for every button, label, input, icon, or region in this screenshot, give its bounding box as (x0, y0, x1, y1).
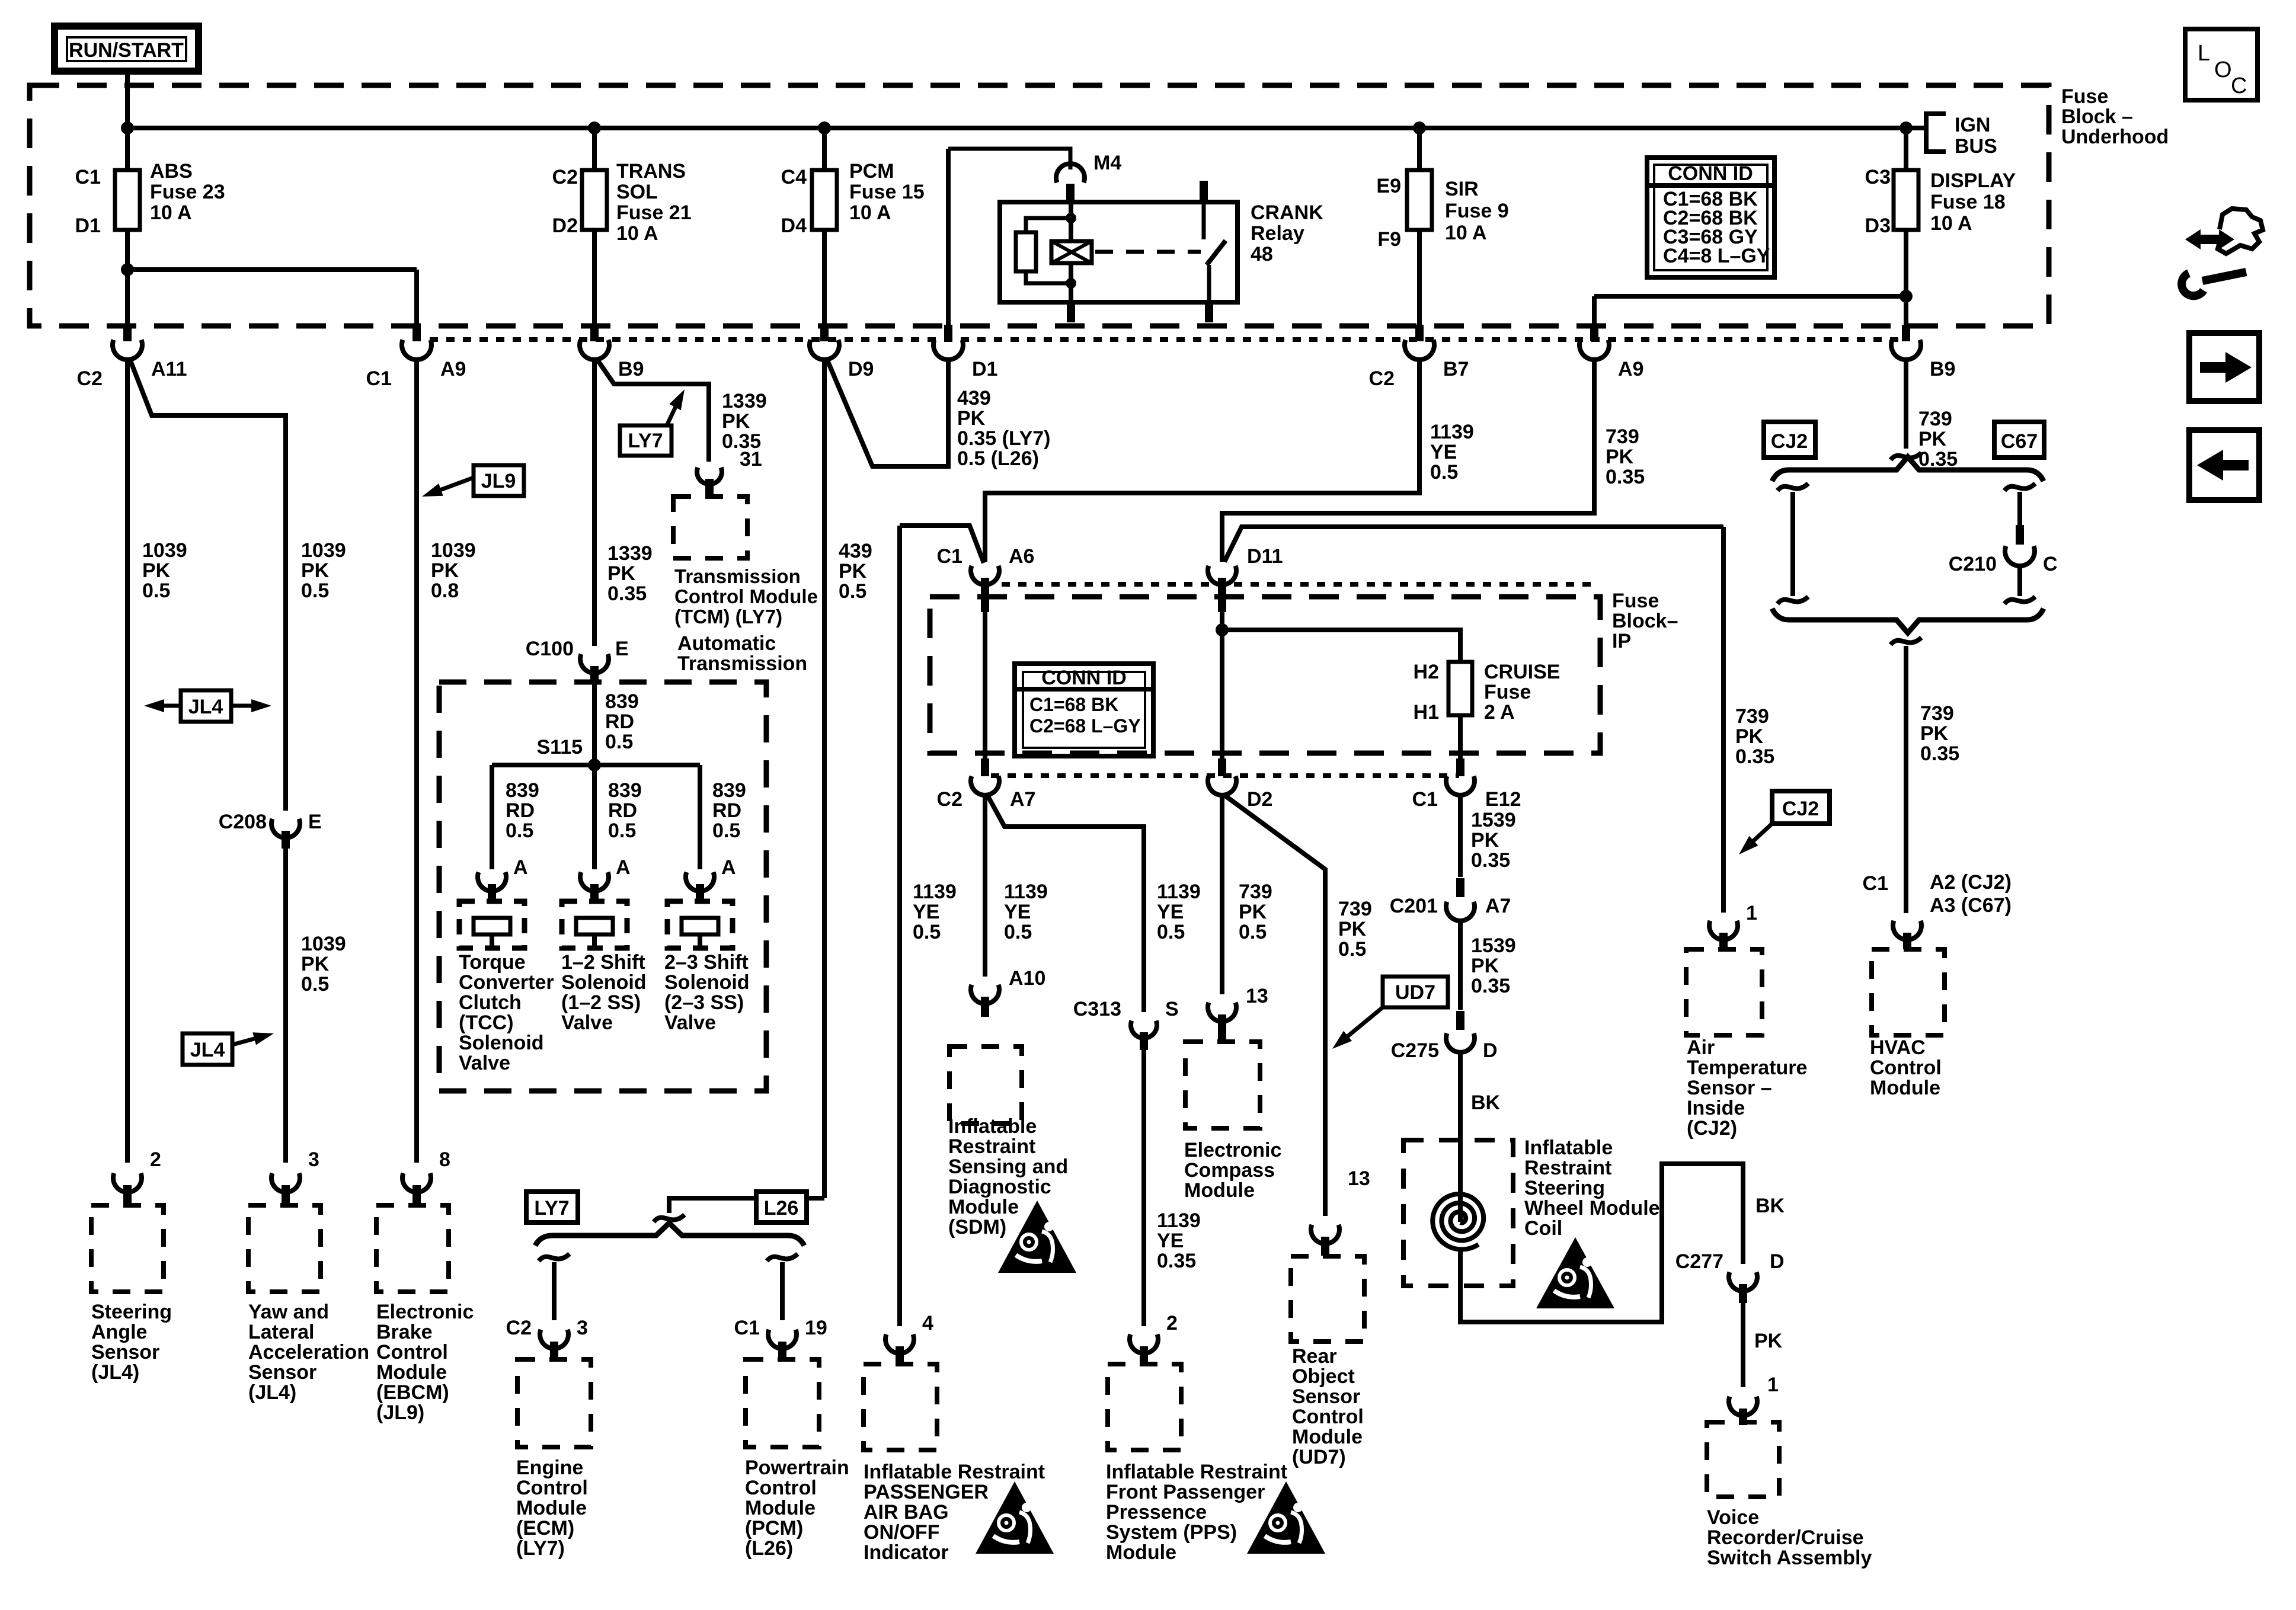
svg-text:739: 739 (1918, 408, 1952, 430)
svg-text:Sensor –: Sensor – (1687, 1077, 1772, 1099)
svg-text:10 A: 10 A (849, 201, 891, 224)
svg-text:4: 4 (922, 1312, 933, 1334)
svg-text:D4: D4 (781, 215, 807, 237)
svg-text:Module: Module (745, 1497, 816, 1519)
svg-text:(UD7): (UD7) (1292, 1446, 1346, 1468)
svg-text:0.5: 0.5 (608, 820, 636, 842)
svg-text:0.8: 0.8 (431, 580, 459, 602)
svg-text:YE: YE (1430, 441, 1457, 463)
svg-text:A9: A9 (1618, 358, 1643, 380)
svg-text:BUS: BUS (1955, 135, 1997, 158)
svg-text:19: 19 (805, 1317, 827, 1339)
svg-text:Transmission: Transmission (677, 652, 807, 675)
svg-text:A7: A7 (1485, 895, 1511, 917)
svg-text:(ECM): (ECM) (516, 1517, 574, 1539)
svg-text:Temperature: Temperature (1687, 1057, 1807, 1079)
svg-text:C208: C208 (219, 811, 267, 833)
svg-text:PK: PK (431, 559, 459, 582)
svg-text:PK: PK (1920, 722, 1949, 745)
svg-text:E12: E12 (1485, 788, 1521, 811)
svg-text:739: 739 (1735, 705, 1769, 728)
svg-text:PK: PK (1338, 918, 1367, 940)
svg-text:0.5: 0.5 (301, 973, 329, 996)
svg-text:Control: Control (516, 1477, 588, 1499)
svg-text:A10: A10 (1009, 967, 1045, 990)
svg-text:F9: F9 (1377, 228, 1401, 251)
svg-text:DISPLAY: DISPLAY (1930, 169, 2016, 192)
svg-text:2 A: 2 A (1484, 701, 1515, 724)
svg-text:System (PPS): System (PPS) (1106, 1521, 1237, 1544)
svg-text:B9: B9 (1930, 358, 1955, 380)
svg-text:JL4: JL4 (188, 696, 223, 718)
svg-text:S: S (1165, 998, 1179, 1020)
svg-text:AIR BAG: AIR BAG (864, 1501, 949, 1523)
svg-text:Pressence: Pressence (1106, 1501, 1207, 1523)
svg-text:Control: Control (1292, 1406, 1364, 1428)
svg-text:Acceleration: Acceleration (248, 1341, 369, 1363)
svg-text:Inflatable Restraint: Inflatable Restraint (864, 1461, 1045, 1483)
svg-text:Clutch: Clutch (459, 991, 522, 1014)
svg-text:Sensor: Sensor (248, 1361, 316, 1384)
svg-text:ON/OFF: ON/OFF (864, 1521, 939, 1544)
svg-text:E: E (615, 638, 629, 660)
svg-text:Automatic: Automatic (677, 632, 776, 655)
svg-text:C1: C1 (366, 367, 392, 390)
svg-text:Module: Module (1184, 1179, 1255, 1202)
svg-text:1039: 1039 (142, 539, 187, 562)
svg-text:Steering: Steering (91, 1301, 172, 1323)
svg-text:PK: PK (1754, 1330, 1783, 1352)
svg-text:IP: IP (1612, 630, 1631, 652)
svg-text:Transmission: Transmission (674, 565, 801, 587)
svg-text:Solenoid: Solenoid (561, 971, 647, 994)
svg-text:48: 48 (1251, 243, 1273, 265)
svg-text:C1=68 BK: C1=68 BK (1029, 694, 1118, 715)
svg-text:C2=68 L–GY: C2=68 L–GY (1029, 715, 1141, 737)
svg-text:PK: PK (301, 953, 330, 975)
svg-text:D2: D2 (552, 215, 578, 237)
svg-text:A11: A11 (151, 358, 187, 380)
svg-text:E: E (308, 811, 322, 833)
svg-text:YE: YE (1004, 901, 1031, 923)
svg-text:D9: D9 (848, 358, 874, 380)
svg-text:Front Passenger: Front Passenger (1106, 1481, 1265, 1503)
svg-text:PCM: PCM (849, 160, 894, 183)
svg-text:HVAC: HVAC (1870, 1036, 1926, 1059)
svg-text:Module: Module (516, 1497, 587, 1519)
svg-text:Fuse 23: Fuse 23 (150, 181, 225, 203)
svg-text:L26: L26 (764, 1197, 799, 1219)
svg-text:Recorder/Cruise: Recorder/Cruise (1707, 1526, 1864, 1549)
svg-text:IGN: IGN (1955, 114, 1990, 136)
svg-text:YE: YE (1157, 1230, 1184, 1252)
svg-text:C2: C2 (1369, 367, 1395, 390)
svg-text:839: 839 (608, 779, 642, 802)
svg-text:0.5: 0.5 (301, 580, 329, 602)
svg-text:1539: 1539 (1471, 934, 1516, 957)
svg-text:0.5 (L26): 0.5 (L26) (957, 447, 1039, 470)
svg-text:Yaw and: Yaw and (248, 1301, 329, 1323)
svg-text:Wheel Module: Wheel Module (1524, 1197, 1660, 1219)
svg-text:Control: Control (1870, 1057, 1942, 1079)
svg-text:Restraint: Restraint (1524, 1157, 1611, 1179)
svg-text:2: 2 (1166, 1312, 1178, 1334)
svg-text:Valve: Valve (561, 1012, 613, 1034)
svg-text:10 A: 10 A (1445, 222, 1487, 244)
svg-text:Inside: Inside (1687, 1097, 1745, 1119)
svg-text:1: 1 (1746, 902, 1757, 924)
svg-text:0.35: 0.35 (1471, 975, 1510, 997)
svg-text:Block–: Block– (1612, 610, 1678, 632)
svg-text:PK: PK (1918, 428, 1947, 450)
svg-text:Relay: Relay (1251, 222, 1304, 245)
svg-text:Fuse 18: Fuse 18 (1930, 191, 2006, 213)
svg-text:Sensor: Sensor (1292, 1385, 1360, 1408)
svg-text:(TCC): (TCC) (459, 1012, 514, 1034)
svg-text:Control Module: Control Module (674, 585, 818, 607)
svg-text:Electronic: Electronic (1184, 1139, 1281, 1161)
svg-text:O: O (2214, 57, 2232, 82)
svg-text:1039: 1039 (431, 539, 476, 562)
svg-text:(JL4): (JL4) (248, 1381, 296, 1404)
svg-text:0.5: 0.5 (1338, 938, 1366, 961)
svg-text:RD: RD (712, 799, 741, 822)
svg-text:3: 3 (308, 1148, 319, 1171)
svg-text:739: 739 (1606, 425, 1639, 448)
svg-text:Diagnostic: Diagnostic (948, 1176, 1051, 1198)
svg-text:(JL4): (JL4) (91, 1361, 139, 1384)
svg-text:(1–2 SS): (1–2 SS) (561, 991, 641, 1014)
svg-text:(JL9): (JL9) (376, 1401, 424, 1424)
svg-text:0.5: 0.5 (712, 820, 740, 842)
svg-text:C4=8 L–GY: C4=8 L–GY (1663, 245, 1770, 267)
svg-text:Fuse 21: Fuse 21 (616, 201, 692, 224)
svg-text:(CJ2): (CJ2) (1687, 1117, 1737, 1140)
svg-text:Object: Object (1292, 1365, 1355, 1388)
svg-text:E9: E9 (1376, 175, 1401, 197)
svg-text:0.5: 0.5 (142, 580, 170, 602)
svg-text:C277: C277 (1675, 1250, 1723, 1273)
svg-text:Lateral: Lateral (248, 1321, 315, 1343)
svg-text:D2: D2 (1247, 788, 1272, 811)
svg-text:0.35 (LY7): 0.35 (LY7) (957, 427, 1051, 450)
svg-text:C201: C201 (1390, 895, 1438, 917)
svg-text:1–2 Shift: 1–2 Shift (561, 951, 645, 974)
svg-text:A: A (513, 856, 528, 879)
svg-text:Steering: Steering (1524, 1177, 1605, 1199)
svg-text:C3: C3 (1865, 166, 1891, 188)
svg-text:A6: A6 (1009, 545, 1034, 568)
svg-text:0.5: 0.5 (1430, 461, 1458, 484)
svg-text:Restraint: Restraint (948, 1135, 1035, 1158)
svg-text:0.35: 0.35 (1920, 742, 1959, 765)
svg-text:839: 839 (605, 690, 639, 713)
svg-text:(SDM): (SDM) (948, 1216, 1006, 1238)
svg-text:Indicator: Indicator (864, 1541, 949, 1564)
svg-text:Fuse 9: Fuse 9 (1445, 200, 1509, 222)
svg-text:RUN/START: RUN/START (69, 39, 184, 62)
svg-text:Inflatable Restraint: Inflatable Restraint (1106, 1461, 1287, 1483)
svg-text:Control: Control (376, 1341, 448, 1363)
svg-text:CJ2: CJ2 (1771, 430, 1808, 453)
svg-text:Solenoid: Solenoid (459, 1032, 544, 1054)
svg-text:CRUISE: CRUISE (1484, 661, 1560, 683)
svg-text:1139: 1139 (1157, 881, 1201, 903)
svg-text:D3: D3 (1865, 215, 1891, 237)
svg-text:0.5: 0.5 (605, 731, 633, 753)
svg-text:C2: C2 (506, 1317, 532, 1339)
svg-text:Control: Control (745, 1477, 817, 1499)
svg-text:(TCM) (LY7): (TCM) (LY7) (674, 606, 782, 628)
svg-text:C2: C2 (937, 788, 962, 811)
svg-text:0.5: 0.5 (839, 580, 866, 603)
svg-text:Inflatable: Inflatable (948, 1115, 1037, 1138)
svg-text:1539: 1539 (1471, 809, 1516, 831)
svg-text:Air: Air (1687, 1036, 1715, 1059)
svg-text:1339: 1339 (607, 542, 653, 565)
svg-text:Block –: Block – (2061, 105, 2133, 128)
svg-text:H1: H1 (1414, 701, 1439, 724)
svg-text:Module: Module (1106, 1541, 1176, 1564)
svg-text:PK: PK (142, 559, 171, 582)
svg-text:Torque: Torque (459, 951, 526, 974)
svg-text:0.5: 0.5 (913, 921, 941, 943)
svg-text:2–3 Shift: 2–3 Shift (664, 951, 749, 974)
svg-text:M4: M4 (1093, 152, 1121, 174)
svg-text:C1: C1 (734, 1317, 760, 1339)
svg-text:UD7: UD7 (1395, 981, 1435, 1004)
svg-text:C313: C313 (1073, 998, 1121, 1020)
svg-text:10 A: 10 A (150, 201, 192, 224)
svg-text:PK: PK (957, 407, 986, 430)
svg-text:439: 439 (839, 540, 872, 562)
svg-text:Angle: Angle (91, 1321, 147, 1343)
svg-text:C210: C210 (1949, 553, 1997, 575)
svg-text:(2–3 SS): (2–3 SS) (664, 991, 744, 1014)
svg-text:D: D (1483, 1039, 1498, 1062)
svg-text:C4: C4 (781, 166, 807, 188)
svg-text:A3 (C67): A3 (C67) (1930, 894, 2012, 917)
svg-text:LY7: LY7 (534, 1197, 569, 1219)
svg-text:TRANS: TRANS (616, 160, 686, 183)
svg-text:Valve: Valve (664, 1012, 716, 1034)
svg-text:Fuse: Fuse (2061, 85, 2108, 108)
svg-text:1139: 1139 (1157, 1209, 1201, 1232)
svg-text:CONN ID: CONN ID (1041, 667, 1127, 689)
svg-text:CJ2: CJ2 (1782, 798, 1819, 820)
svg-text:PK: PK (607, 562, 636, 585)
svg-text:LY7: LY7 (628, 430, 663, 452)
svg-text:Fuse: Fuse (1612, 590, 1659, 612)
svg-text:C1: C1 (1412, 788, 1438, 811)
svg-text:Sensing and: Sensing and (948, 1156, 1068, 1178)
svg-text:D11: D11 (1247, 545, 1283, 568)
svg-text:(L26): (L26) (745, 1537, 793, 1560)
svg-text:0.35: 0.35 (1157, 1250, 1196, 1272)
svg-text:Underhood: Underhood (2061, 126, 2169, 148)
svg-text:1139: 1139 (913, 881, 957, 903)
svg-text:Module: Module (1292, 1426, 1363, 1448)
svg-text:839: 839 (506, 779, 539, 802)
svg-text:3: 3 (577, 1317, 588, 1339)
svg-text:1039: 1039 (301, 539, 346, 562)
svg-text:C: C (2043, 553, 2058, 575)
svg-text:YE: YE (1157, 901, 1184, 923)
svg-text:PK: PK (839, 560, 867, 582)
svg-text:Coil: Coil (1524, 1217, 1562, 1240)
svg-text:0.35: 0.35 (1735, 745, 1774, 768)
svg-text:13: 13 (1246, 985, 1268, 1007)
svg-text:Module: Module (948, 1196, 1019, 1218)
svg-text:B9: B9 (618, 358, 644, 380)
svg-text:PK: PK (1606, 446, 1634, 468)
svg-text:439: 439 (957, 387, 991, 409)
svg-text:739: 739 (1920, 702, 1954, 725)
svg-text:739: 739 (1338, 898, 1372, 920)
svg-text:C: C (2231, 73, 2247, 98)
svg-text:C1: C1 (75, 166, 101, 188)
svg-text:SOL: SOL (616, 181, 658, 203)
svg-text:Electronic: Electronic (376, 1301, 474, 1323)
svg-text:Valve: Valve (459, 1052, 510, 1074)
svg-text:Solenoid: Solenoid (664, 971, 750, 994)
svg-text:839: 839 (712, 779, 746, 802)
svg-text:PK: PK (301, 559, 330, 582)
svg-text:C2: C2 (77, 367, 103, 390)
svg-text:CRANK: CRANK (1251, 201, 1323, 224)
svg-text:8: 8 (439, 1148, 450, 1171)
svg-text:C1: C1 (937, 545, 962, 568)
svg-text:31: 31 (740, 448, 762, 470)
svg-text:Sensor: Sensor (91, 1341, 159, 1363)
svg-text:Rear: Rear (1292, 1345, 1337, 1368)
svg-text:A: A (721, 856, 736, 879)
svg-text:BK: BK (1471, 1092, 1501, 1114)
svg-text:(PCM): (PCM) (745, 1517, 803, 1539)
svg-text:A7: A7 (1010, 788, 1035, 811)
svg-text:Fuse 15: Fuse 15 (849, 181, 925, 203)
svg-text:Voice: Voice (1707, 1506, 1759, 1529)
svg-text:C275: C275 (1391, 1039, 1439, 1062)
svg-text:PK: PK (1735, 725, 1764, 748)
svg-text:Switch Assembly: Switch Assembly (1707, 1547, 1872, 1569)
svg-text:RD: RD (506, 799, 535, 822)
svg-text:Inflatable: Inflatable (1524, 1137, 1613, 1159)
svg-text:1: 1 (1767, 1374, 1779, 1396)
svg-text:D: D (1770, 1250, 1785, 1273)
svg-text:Compass: Compass (1184, 1159, 1275, 1182)
svg-text:0.35: 0.35 (1606, 466, 1645, 488)
svg-text:0.5: 0.5 (1157, 921, 1185, 943)
svg-text:D1: D1 (972, 358, 997, 380)
svg-text:RD: RD (608, 799, 637, 822)
svg-text:PASSENGER: PASSENGER (864, 1481, 989, 1503)
svg-text:C100: C100 (526, 638, 574, 660)
svg-text:PK: PK (1471, 955, 1499, 977)
svg-text:Brake: Brake (376, 1321, 433, 1343)
svg-text:S115: S115 (536, 736, 583, 758)
svg-text:Module: Module (1870, 1077, 1940, 1099)
svg-text:Converter: Converter (459, 971, 554, 994)
svg-text:0.5: 0.5 (506, 820, 533, 842)
svg-text:D1: D1 (75, 215, 101, 237)
svg-text:JL4: JL4 (190, 1039, 225, 1061)
svg-text:739: 739 (1239, 881, 1272, 903)
svg-text:YE: YE (913, 901, 939, 923)
svg-text:PK: PK (722, 410, 750, 433)
svg-text:B7: B7 (1443, 358, 1469, 380)
svg-text:Module: Module (376, 1361, 447, 1384)
svg-text:1039: 1039 (301, 933, 346, 955)
svg-text:Fuse: Fuse (1484, 681, 1531, 703)
svg-text:A: A (616, 856, 631, 879)
svg-text:0.35: 0.35 (1471, 849, 1510, 872)
svg-text:(LY7): (LY7) (516, 1537, 565, 1560)
svg-text:A2 (CJ2): A2 (CJ2) (1930, 871, 2012, 894)
svg-text:Powertrain: Powertrain (745, 1457, 849, 1479)
svg-text:0.5: 0.5 (1239, 921, 1267, 943)
svg-text:0.35: 0.35 (1918, 448, 1958, 470)
svg-text:1139: 1139 (1430, 421, 1474, 443)
svg-text:1339: 1339 (722, 390, 767, 412)
svg-text:(EBCM): (EBCM) (376, 1381, 449, 1404)
svg-text:1139: 1139 (1004, 881, 1048, 903)
svg-text:Engine: Engine (516, 1457, 583, 1479)
svg-text:10 A: 10 A (616, 222, 658, 245)
svg-text:SIR: SIR (1445, 178, 1479, 200)
svg-text:JL9: JL9 (481, 470, 516, 492)
svg-text:13: 13 (1348, 1167, 1370, 1190)
svg-text:A9: A9 (440, 358, 466, 380)
svg-text:ABS: ABS (150, 160, 193, 183)
svg-text:PK: PK (1471, 829, 1499, 852)
svg-text:H2: H2 (1414, 661, 1439, 683)
svg-text:PK: PK (1239, 901, 1267, 923)
svg-text:2: 2 (150, 1148, 161, 1171)
svg-text:C2: C2 (552, 166, 578, 188)
svg-text:0.5: 0.5 (1004, 921, 1032, 943)
svg-text:0.35: 0.35 (607, 582, 647, 605)
svg-text:L: L (2198, 41, 2210, 66)
svg-text:CONN ID: CONN ID (1668, 162, 1753, 185)
svg-text:BK: BK (1755, 1195, 1785, 1217)
svg-text:C1: C1 (1863, 872, 1888, 895)
svg-text:10 A: 10 A (1930, 212, 1972, 235)
svg-text:RD: RD (605, 710, 634, 733)
svg-text:C67: C67 (2001, 430, 2038, 453)
